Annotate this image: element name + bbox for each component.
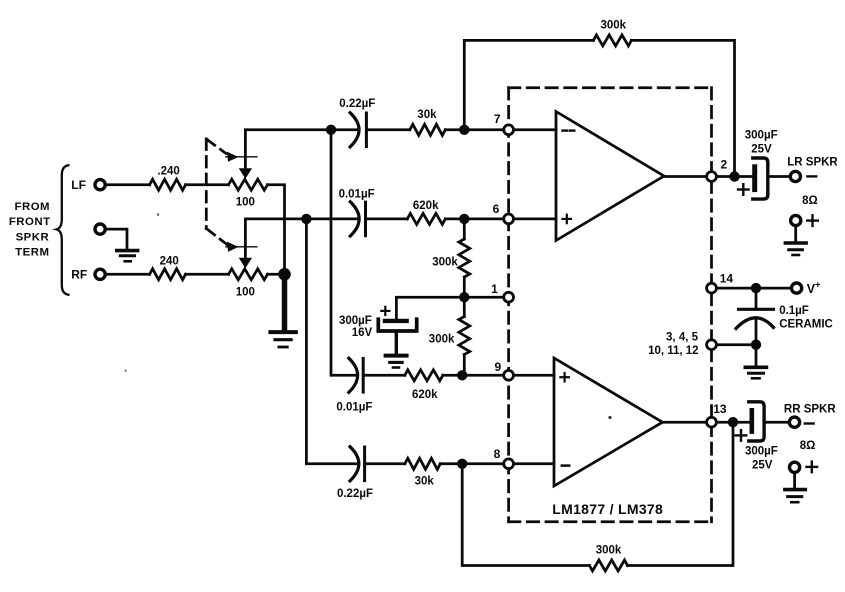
wire pin14 to V+ (717, 287, 791, 290)
svg-text:7: 7 (494, 112, 501, 126)
capacitor 0.01uF (top) (350, 202, 365, 236)
svg-text:2: 2 (721, 158, 728, 172)
svg-text:100: 100 (236, 196, 255, 208)
pin 13 (707, 417, 717, 427)
ground (0.1uF) (744, 367, 769, 378)
speck artifacts (608, 416, 611, 419)
ground (RR speaker +) (783, 490, 807, 503)
svg-text:620k: 620k (412, 389, 438, 401)
svg-text:LF: LF (71, 178, 86, 192)
svg-text:3, 4, 5: 3, 4, 5 (666, 332, 699, 344)
svg-text:+: + (815, 280, 821, 291)
resistor 300k (bottom feedback) (590, 560, 628, 571)
capacitor 300uF 25V (LR output) (753, 158, 768, 199)
junction pin9 node (457, 370, 467, 380)
svg-text:30k: 30k (415, 475, 435, 487)
svg-text:0.22µF: 0.22µF (337, 488, 373, 500)
svg-text:6: 6 (493, 202, 500, 216)
svg-text:1: 1 (491, 282, 498, 296)
svg-text:0.1µF: 0.1µF (779, 305, 809, 317)
svg-text:9: 9 (494, 360, 501, 374)
pot1 wiper arrow (239, 130, 252, 179)
svg-text:620k: 620k (413, 200, 439, 212)
junction pin13 output node (728, 417, 738, 427)
svg-text:13: 13 (713, 402, 727, 416)
wire node to ground (755, 345, 758, 365)
terminal V+ (792, 283, 802, 293)
wire pot2 right terminal (268, 273, 285, 276)
IC boundary dashed box LM1877 (509, 88, 712, 522)
plus sign 300uF16V (381, 307, 389, 315)
junction bypass ground node (751, 340, 761, 350)
junction pot2 right node (278, 268, 291, 281)
svg-text:30k: 30k (417, 109, 437, 121)
resistor 620k (top) (407, 213, 445, 224)
op-amp1 plus (563, 215, 572, 224)
svg-text:300µF: 300µF (339, 315, 372, 327)
svg-text:100: 100 (236, 287, 255, 299)
svg-text:LR SPKR: LR SPKR (787, 157, 838, 169)
svg-text:240: 240 (160, 256, 179, 268)
ground (LR speaker +) (784, 243, 808, 255)
pin 14 (707, 283, 717, 293)
terminal RF (95, 269, 105, 279)
pin 9 (504, 370, 514, 380)
svg-text:300k: 300k (601, 20, 627, 32)
wire 620k to pin6 (445, 218, 556, 221)
terminal LR SPKR (790, 171, 800, 181)
pin 7 (504, 125, 514, 135)
wire feedback top right (631, 40, 734, 176)
terminal RR + (790, 462, 800, 472)
svg-text:25V: 25V (751, 144, 772, 156)
svg-text:300µF: 300µF (745, 130, 778, 142)
wire cap to 620k (366, 218, 408, 221)
svg-text:25V: 25V (752, 460, 773, 472)
terminal LF (95, 180, 105, 190)
svg-text:300k: 300k (429, 333, 455, 345)
junction V+ node (751, 283, 761, 293)
wire opamp1 output to pin2 (664, 175, 753, 178)
brace FROM FRONT SPKR TERM (57, 165, 69, 295)
wire pin1 node to pin 1 (464, 296, 508, 299)
gang arrow pot1 (226, 152, 257, 162)
minus sign LR SPKR (807, 175, 816, 177)
wire opamp2 output to pin13 (663, 421, 750, 424)
capacitor 300uF 25V (RR output) (749, 402, 764, 441)
resistor 30k (bottom) (405, 458, 440, 469)
svg-text:0.22µF: 0.22µF (339, 98, 375, 110)
pin 3,4,5,10,11,12 (707, 340, 717, 350)
wire NC terminal to ground (106, 229, 127, 249)
svg-text:14: 14 (720, 272, 734, 286)
svg-text:300k: 300k (596, 545, 622, 557)
resistor 300k (pin1 to pin9) (459, 297, 470, 375)
pin 6 (504, 214, 514, 224)
svg-text:FROM: FROM (15, 201, 51, 213)
junction pin1 node (459, 292, 469, 302)
svg-text:8Ω: 8Ω (800, 440, 816, 452)
svg-text:LM1877 / LM378: LM1877 / LM378 (552, 501, 663, 517)
svg-text:300µF: 300µF (745, 446, 778, 458)
wire cap to LR SPKR terminal (768, 175, 790, 178)
wire LF input line (106, 183, 150, 186)
wire cap to RR SPKR terminal (764, 421, 789, 424)
plus sign LR gnd terminal (807, 215, 818, 226)
resistor 30k (top) (410, 124, 445, 135)
ground (bypass cap) (384, 356, 409, 368)
wire thick bus pot2 node to ground (282, 274, 288, 330)
wire RF input line (106, 273, 150, 276)
svg-text:8Ω: 8Ω (802, 195, 818, 207)
resistor 300k (pin6 to pin1) (459, 219, 470, 297)
wire pot1 right terminal (268, 185, 285, 275)
capacitor 0.01uF (bottom) (349, 358, 363, 392)
ground (pot common) (268, 332, 297, 347)
svg-text:RF: RF (71, 267, 87, 281)
wire node B vertical (RF node to lower 0.22uF) (306, 219, 356, 464)
pin 2 (707, 172, 717, 182)
plus sign RR gnd terminal (807, 462, 818, 473)
pin 8 (504, 459, 514, 469)
svg-text:300k: 300k (432, 257, 458, 269)
resistor 240 (RF series) (150, 269, 186, 280)
op-amp U1b (bottom) (554, 358, 663, 486)
terminal LR + (791, 215, 801, 225)
wire cap to 620k (bottom) (363, 374, 405, 377)
svg-text:8: 8 (494, 447, 501, 461)
potentiometer 100 (RF balance) (229, 269, 268, 280)
svg-text:0.01µF: 0.01µF (336, 402, 372, 414)
svg-text:16V: 16V (352, 327, 373, 339)
plus sign RR cap (736, 430, 747, 441)
wire feedback bottom right (628, 422, 734, 565)
wire RR speaker return terminal to ground (793, 473, 796, 488)
svg-text:RR SPKR: RR SPKR (784, 403, 836, 415)
capacitor 0.22uF (top) (350, 113, 366, 147)
svg-text:TERM: TERM (15, 247, 49, 259)
wire cap to 30k (366, 128, 409, 131)
pot2 wiper arrow (239, 219, 252, 268)
resistor 300k (top feedback) (593, 35, 631, 46)
junction pin2 output node (729, 171, 739, 181)
wire 30k to pin8 (440, 462, 554, 465)
junction pot2 wiper node (301, 214, 311, 224)
wire feedback top (464, 40, 593, 129)
op-amp U1a (top) (556, 112, 664, 241)
svg-text:0.01µF: 0.01µF (339, 189, 375, 201)
wire cap to 30k (bottom) (365, 462, 405, 465)
gang arrow pot2 (226, 242, 257, 252)
wire pin1 node to bypass cap (396, 297, 464, 318)
plus sign LR cap (738, 184, 749, 195)
svg-text:CERAMIC: CERAMIC (779, 319, 833, 331)
pin 1 (504, 292, 514, 302)
junction pin8 node (457, 459, 467, 469)
wire node A vertical (LF node to lower 0.01uF) (331, 130, 355, 375)
op-amp1 minus (563, 129, 575, 131)
terminal RR SPKR (789, 417, 799, 427)
svg-text:FRONT: FRONT (9, 216, 51, 228)
capacitor 0.1uF ceramic (736, 288, 773, 345)
wire pin3-12 to cap ground node (717, 343, 756, 346)
wire pot1 wiper to node (245, 128, 357, 131)
wire LR speaker return terminal to ground (794, 226, 797, 241)
junction pin7 node (459, 125, 469, 135)
wire 620k to pin9 (443, 374, 554, 377)
ground (NC terminal) (115, 251, 139, 262)
resistor 620k (bottom) (405, 370, 443, 381)
wire 240 to pot1 (186, 183, 229, 186)
op-amp2 minus (562, 464, 569, 467)
gang dashed link (dual pot) (206, 139, 227, 245)
potentiometer 100 (LF balance) (229, 179, 268, 190)
svg-text:SPKR: SPKR (16, 231, 50, 243)
terminal NC (95, 224, 105, 234)
op-amp2 plus (560, 373, 569, 382)
svg-text:10, 11, 12: 10, 11, 12 (648, 345, 699, 357)
wire pot2 wiper to node (245, 218, 356, 221)
wire feedback bottom (462, 464, 589, 566)
minus sign RR SPKR (805, 422, 814, 424)
junction pin6 node (459, 214, 469, 224)
capacitor 300uF 16V (bias bypass) (378, 319, 416, 352)
wire 30k to pin7 (445, 128, 556, 131)
capacitor 0.22uF (bottom) (350, 447, 365, 481)
svg-text:.240: .240 (157, 166, 179, 178)
wire 240 to pot2 (186, 273, 229, 276)
resistor 240 (LF series) (150, 179, 186, 190)
junction pot1 wiper node (326, 125, 336, 135)
